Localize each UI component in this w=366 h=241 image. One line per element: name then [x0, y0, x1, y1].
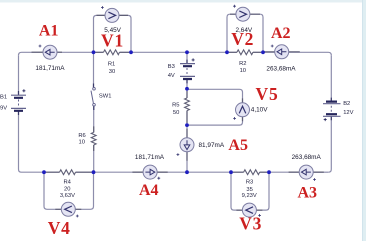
svg-text:V1: V1 [101, 30, 124, 50]
wire B3 pins [186, 60, 188, 84]
resistor R4 [60, 170, 76, 175]
svg-text:R5: R5 [172, 102, 179, 108]
wire top rail R2 to A2 [253, 51, 275, 53]
wire A4 pins [132, 171, 167, 173]
switch SW1 [91, 88, 95, 106]
svg-text:9,23V: 9,23V [242, 193, 257, 199]
svg-text:3,63V: 3,63V [60, 193, 75, 199]
svg-text:SW1: SW1 [99, 94, 112, 100]
svg-text:R1: R1 [108, 62, 115, 68]
wire top rail A1 to node [57, 51, 104, 53]
wire R4 pins [46, 171, 92, 173]
svg-text:81,97mA: 81,97mA [199, 142, 225, 149]
resistor R5 [185, 98, 190, 111]
voltmeter V2 [233, 5, 250, 21]
wire A3 pins [289, 171, 324, 173]
node bottom V3 right [267, 170, 271, 174]
wire A5 pins [186, 129, 188, 161]
svg-text:A1: A1 [39, 23, 59, 40]
svg-text:181,71mA: 181,71mA [35, 65, 65, 72]
wire B2 pins [330, 98, 332, 121]
voltmeter V5 [233, 103, 249, 120]
wire B3 to R5 [186, 80, 188, 98]
voltmeter V3 [242, 203, 261, 217]
wire bottom rail A3 to corner [313, 171, 328, 173]
node bottom V3 left [229, 170, 233, 174]
wire bottom rail left [22, 171, 60, 173]
battery B1 [11, 89, 26, 111]
svg-text:50: 50 [173, 110, 179, 116]
svg-text:B2: B2 [343, 101, 350, 107]
wire R1 pins [96, 51, 130, 53]
node mid V5 bottom [185, 123, 189, 127]
resistor R6 [91, 132, 96, 145]
svg-text:30: 30 [109, 69, 115, 75]
resistor R2 [237, 50, 253, 55]
wire V5 pins [242, 98, 244, 121]
node top V2 right [261, 50, 265, 54]
resistor R3 [244, 170, 260, 175]
node mid V5 top [185, 87, 189, 91]
wire V5 loop [187, 89, 243, 125]
svg-text:10: 10 [240, 68, 246, 74]
wire R5 pins [186, 91, 188, 123]
wire top rail A2 to corner [289, 52, 332, 55]
wire right rail lower [328, 117, 331, 173]
wire SW1 to R6 [93, 106, 95, 132]
resistor R1 [104, 50, 120, 55]
wire B1 pins [18, 91, 20, 115]
battery B3 [180, 58, 195, 79]
svg-text:4,10V: 4,10V [251, 107, 268, 114]
wire top rail mid [120, 51, 237, 53]
wire bottom rail A4 to R3 [157, 171, 244, 173]
wire left rail upper [18, 55, 20, 95]
node bottom middle branch [185, 170, 189, 174]
svg-text:A3: A3 [298, 185, 318, 202]
ammeter A2 [271, 45, 289, 59]
wire R6 pins [93, 126, 95, 151]
battery B2 [323, 102, 341, 122]
node top V1 left [92, 50, 96, 54]
svg-text:181,71mA: 181,71mA [135, 154, 165, 161]
wire top rail left [19, 52, 44, 55]
wire V2 pins [230, 13, 260, 15]
ammeter A5 [177, 138, 195, 156]
voltmeter V1 [101, 6, 119, 22]
svg-text:263,68mA: 263,68mA [292, 154, 322, 161]
node bottom V4 left [42, 170, 46, 174]
svg-text:20: 20 [64, 187, 70, 193]
wire middle branch B3 top [186, 52, 188, 63]
svg-text:9V: 9V [0, 105, 7, 111]
wire left rail lower [19, 111, 22, 172]
svg-text:R2: R2 [239, 61, 246, 67]
wire SW1 pins [93, 84, 95, 111]
svg-text:10: 10 [79, 139, 85, 145]
svg-text:B1: B1 [0, 94, 7, 100]
wire bottom rail R3 to A3 [260, 171, 300, 173]
wire right rail upper [330, 55, 332, 101]
ammeter A4 [143, 165, 160, 180]
svg-text:4V: 4V [168, 73, 175, 79]
svg-text:A4: A4 [139, 182, 159, 199]
svg-text:V2: V2 [231, 29, 254, 49]
wire V4 pins [55, 208, 81, 210]
svg-text:R6: R6 [78, 133, 85, 139]
svg-text:A5: A5 [228, 137, 248, 154]
wire V1 pins [97, 14, 129, 16]
svg-text:B3: B3 [168, 64, 175, 70]
wire V2 loop [227, 14, 263, 52]
wire R6 to bottom rail [93, 145, 95, 172]
wire V3 loop [231, 172, 269, 210]
wire V1 loop [94, 15, 132, 52]
svg-text:R3: R3 [246, 179, 253, 185]
node top middle branch [185, 50, 189, 54]
wire V4 loop [44, 172, 94, 209]
svg-text:263,68mA: 263,68mA [266, 65, 296, 72]
node top V2 left [225, 50, 229, 54]
voltmeter V4 [61, 202, 78, 217]
node bottom V4 right [92, 170, 96, 174]
ammeter A1 [39, 45, 57, 60]
svg-text:R4: R4 [63, 179, 71, 185]
wire R2 pins [229, 51, 261, 53]
wire R5 to A5 [186, 111, 188, 138]
wire A5 to bottom rail [186, 152, 188, 173]
wire V3 pins [236, 209, 262, 211]
svg-text:12V: 12V [343, 110, 353, 116]
svg-text:V5: V5 [256, 84, 279, 104]
wire SW1 branch upper [93, 52, 95, 87]
svg-text:A2: A2 [271, 25, 291, 42]
wire R3 pins [233, 171, 267, 173]
ammeter A3 [299, 165, 316, 181]
svg-text:V4: V4 [48, 218, 71, 238]
wire bottom rail R4 to A4 [76, 171, 144, 173]
wire A2 pins [264, 51, 300, 53]
svg-text:V3: V3 [239, 214, 262, 234]
node top V1 right [129, 50, 133, 54]
wire A1 pins [32, 51, 63, 53]
